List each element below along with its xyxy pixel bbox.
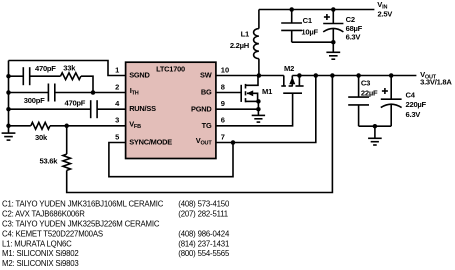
svg-text:33k: 33k [63, 63, 76, 72]
wire M1 source down [257, 101, 259, 115]
svg-text:C4: KEMET T520D227M00AS: C4: KEMET T520D227M00AS [2, 229, 103, 238]
svg-text:SGND: SGND [129, 71, 150, 80]
svg-text:(408) 986-0424: (408) 986-0424 [178, 229, 230, 238]
wire TG row to M2 gate [216, 93, 293, 126]
node M1 source junction [256, 99, 261, 104]
capacitor C1 stub top [291, 10, 293, 24]
capacitor C4 stub bottom [390, 104, 392, 126]
transistor M2 body arrow head [289, 77, 295, 84]
wire C2 ground stub [332, 42, 334, 52]
svg-text:M1: SILICONIX Si9802: M1: SILICONIX Si9802 [2, 249, 79, 258]
svg-text:7: 7 [221, 132, 225, 141]
svg-text:SW: SW [200, 71, 212, 80]
ground C2 [326, 52, 340, 59]
svg-text:6.3V: 6.3V [346, 33, 362, 42]
svg-text:4: 4 [115, 99, 120, 108]
capacitor C3 plates [348, 97, 369, 105]
resistor 30k [31, 122, 50, 129]
svg-text:2: 2 [115, 82, 119, 91]
wire RUN/SS to pin 4 [98, 108, 126, 110]
svg-text:9: 9 [221, 99, 225, 108]
svg-text:10µF: 10µF [301, 28, 318, 37]
svg-text:2.5V: 2.5V [378, 10, 394, 19]
node M2 source junction [297, 73, 302, 78]
wire left rail [8, 61, 10, 134]
node C2 ground junction [331, 40, 336, 45]
transistor M1 source stub [246, 100, 259, 102]
wire rail to 30k [9, 125, 31, 127]
node rail-30k junction [6, 124, 11, 129]
svg-text:470pF: 470pF [35, 64, 56, 73]
wire SW row to M2 drain [216, 75, 284, 77]
node C1 top junction [289, 7, 294, 12]
wire 470pF C-comp row [9, 75, 23, 77]
wire cap to 33k [30, 75, 60, 77]
node pin7-sync junction [231, 140, 236, 145]
capacitor 470pF (RUN/SS) [91, 100, 97, 118]
svg-text:C1: C1 [303, 16, 313, 25]
capacitor C2 stub bottom [332, 29, 334, 43]
wire pin 7 VOUT row [216, 76, 316, 143]
resistor 33k [61, 73, 81, 80]
svg-text:(814) 237-1431: (814) 237-1431 [178, 239, 229, 248]
transistor M2 body arrow wire [291, 76, 293, 87]
node SW junction [257, 73, 262, 78]
wire C3C4 ground stub [374, 126, 376, 138]
svg-text:M2: M2 [284, 64, 294, 73]
transistor M1 body arrow head [247, 90, 254, 96]
capacitor C2 plus sign [324, 14, 330, 20]
node rail-row4 junction [6, 107, 11, 112]
transistor M2 gate line [283, 92, 302, 94]
wire 53.6k bottom to VOUT rail [67, 76, 333, 193]
transistor M2 channel segments [281, 85, 303, 87]
svg-text:68µF: 68µF [346, 24, 363, 33]
svg-text:C2: C2 [346, 15, 355, 24]
capacitor C1 plates [281, 23, 302, 30]
svg-text:53.6k: 53.6k [40, 156, 59, 165]
node C3C4 ground junction [373, 124, 378, 129]
svg-text:C2: AVX TAJB686K006R: C2: AVX TAJB686K006R [2, 210, 85, 219]
transistor M1 channel segments [245, 84, 247, 102]
inductor L1 coils [254, 29, 259, 59]
node VFB junction [64, 124, 69, 129]
capacitor C2 stub top [332, 10, 334, 24]
node rail-470pF junction [6, 74, 11, 79]
svg-text:(207) 282-5111: (207) 282-5111 [178, 210, 228, 219]
wire C1-C2 bottom [292, 41, 334, 43]
svg-text:BG: BG [201, 88, 212, 97]
wire SYNC/MODE loop [109, 143, 233, 177]
transistor M1 gate line [240, 85, 242, 102]
capacitor C4 curved plate [381, 104, 402, 107]
capacitor C4 stub top [390, 76, 392, 100]
svg-text:L1: MURATA LQN6C: L1: MURATA LQN6C [2, 239, 72, 248]
node C2 top junction [331, 7, 336, 12]
wire 30k to pin 3 VFB [50, 125, 126, 127]
svg-text:2.2µH: 2.2µH [230, 41, 249, 50]
capacitor C4 top plate [381, 98, 402, 100]
wire SGND top loop to pin 1 [9, 61, 126, 76]
svg-text:3.3V/1.8A: 3.3V/1.8A [420, 78, 452, 87]
svg-text:220µF: 220µF [406, 100, 427, 109]
svg-text:PGND: PGND [191, 104, 212, 113]
wire RUN/SS row left [9, 108, 91, 110]
svg-text:M2: SILICONIX Si9803: M2: SILICONIX Si9803 [2, 259, 79, 268]
svg-text:RUN/SS: RUN/SS [129, 104, 156, 113]
node C3 junction [356, 73, 361, 78]
ground M1 source [252, 115, 265, 122]
node M1 PGND junction [256, 107, 261, 112]
resistor 53.6k [63, 154, 71, 170]
wire VOUT rail [292, 75, 416, 77]
capacitor C2 top plate [323, 23, 343, 25]
capacitor 300pF [48, 84, 54, 102]
svg-text:3: 3 [115, 116, 119, 125]
svg-text:8: 8 [221, 82, 225, 91]
svg-text:10: 10 [221, 66, 229, 75]
wire PGND row [216, 108, 259, 110]
wire BG row to M1 gate [216, 92, 241, 94]
wire VIN top rail [259, 9, 375, 11]
svg-text:470pF: 470pF [65, 98, 86, 107]
transistor M1 body arrow wire [247, 93, 258, 101]
wire C3-C4 bottom [359, 125, 392, 127]
svg-text:300pF: 300pF [24, 96, 45, 105]
inductor L1 wire bottom [258, 59, 260, 76]
node rail-300pF junction [6, 90, 11, 95]
svg-text:LTC1700: LTC1700 [156, 65, 185, 74]
svg-text:C1: TAIYO YUDEN JMK316BJ106ML: C1: TAIYO YUDEN JMK316BJ106ML CERAMIC [2, 200, 164, 209]
svg-text:5: 5 [115, 132, 119, 141]
node ITH junction [91, 90, 96, 95]
ground left rail [2, 133, 16, 140]
svg-text:M1: M1 [262, 87, 273, 96]
svg-text:SYNC/MODE: SYNC/MODE [129, 138, 172, 147]
svg-text:30k: 30k [35, 133, 48, 142]
wire 33k to ITH node [81, 76, 93, 92]
svg-text:L1: L1 [241, 30, 250, 39]
transistor M2 source stub [298, 76, 300, 87]
wire VFB node down to 53.6k [66, 126, 68, 154]
capacitor C4 plus sign [382, 88, 388, 94]
transistor M1 drain stub [246, 76, 259, 86]
node C4 junction [389, 73, 394, 78]
node 53.6k riser junction [330, 73, 335, 78]
svg-text:C3: TAIYO YUDEN JMK325BJ226M C: C3: TAIYO YUDEN JMK325BJ226M CERAMIC [2, 220, 160, 229]
svg-text:TG: TG [202, 121, 212, 130]
svg-text:C4: C4 [406, 90, 416, 99]
ground C3C4 [368, 138, 382, 145]
IC U1 LTC1700 body [126, 62, 216, 158]
capacitor 470pF (ITH comp) [23, 67, 29, 85]
svg-text:22µF: 22µF [361, 88, 378, 97]
wire ITH row right to pin 2 [55, 92, 125, 94]
svg-text:(408) 573-4150: (408) 573-4150 [178, 200, 230, 209]
inductor L1 vertical wire top [258, 10, 260, 29]
transistor M2 drain stub [283, 76, 285, 87]
svg-text:6: 6 [221, 116, 225, 125]
capacitor C3 stub bottom [358, 105, 360, 126]
capacitor C1 stub bottom [291, 30, 293, 42]
svg-text:1: 1 [115, 65, 119, 74]
svg-text:6.3V: 6.3V [406, 110, 422, 119]
node pin7 riser junction [314, 73, 319, 78]
capacitor C3 stub top [358, 76, 360, 97]
svg-text:(800) 554-5565: (800) 554-5565 [178, 249, 230, 258]
capacitor C2 curved plate [323, 28, 343, 31]
wire ITH row left [9, 92, 49, 94]
svg-text:C3: C3 [361, 79, 370, 88]
